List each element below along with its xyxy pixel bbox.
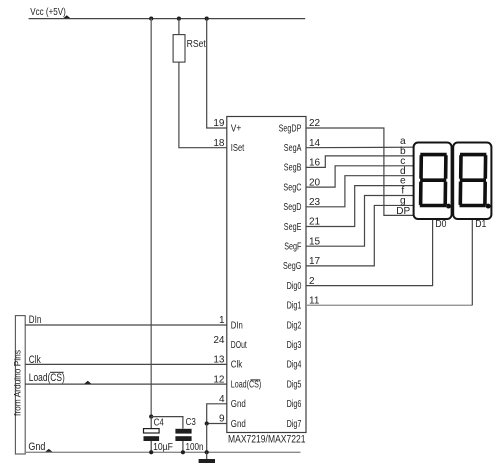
svg-text:Dig2: Dig2 xyxy=(287,320,302,331)
svg-text:Dig5: Dig5 xyxy=(287,379,302,390)
wire Gnd net (bottom rail) xyxy=(25,451,300,453)
svg-text:10µF: 10µF xyxy=(153,442,173,453)
svg-text:12: 12 xyxy=(213,374,225,385)
digit glyph of D0 xyxy=(420,155,447,206)
svg-text:RSet: RSet xyxy=(187,39,206,50)
svg-text:DIn: DIn xyxy=(29,314,42,326)
wire Gnd pin 9 to ground column xyxy=(207,423,227,425)
svg-text:Load(CS): Load(CS) xyxy=(231,379,261,390)
svg-text:ISet: ISet xyxy=(231,143,245,154)
junction on Vcc rail at decoupling branch xyxy=(149,17,153,21)
wire Seg pin 16 to b row xyxy=(306,156,414,168)
7-segment display D0 body xyxy=(414,143,452,220)
svg-text:SegB: SegB xyxy=(284,163,302,174)
wire SegA pin 14 to a row xyxy=(306,146,414,149)
junction at capacitor C4 top xyxy=(149,415,153,419)
svg-text:SegE: SegE xyxy=(284,222,302,233)
wire Clk net xyxy=(25,363,227,365)
svg-text:Vcc (+5V): Vcc (+5V) xyxy=(30,7,66,18)
wire Seg pin 20 to c row xyxy=(306,166,414,187)
svg-text:DIn: DIn xyxy=(231,320,243,331)
svg-text:DP: DP xyxy=(396,206,410,217)
svg-text:SegD: SegD xyxy=(283,202,301,213)
decimal point of D1 xyxy=(486,204,491,209)
svg-text:9: 9 xyxy=(219,414,225,425)
capacitor C3 bottom plate xyxy=(175,436,191,441)
svg-text:18: 18 xyxy=(213,138,225,149)
wire Vcc to RSet top xyxy=(178,19,180,35)
svg-text:19: 19 xyxy=(213,118,225,129)
wire Seg pin 17 to g row xyxy=(306,205,414,265)
svg-text:V+: V+ xyxy=(231,123,242,134)
capacitor C4 top plate xyxy=(144,429,160,433)
junction at ground rail xyxy=(205,450,209,454)
7-segment display D1 body xyxy=(453,143,491,220)
wire C3 bottom to ground rail xyxy=(182,441,184,452)
svg-text:Dig7: Dig7 xyxy=(287,419,302,430)
wire Dig1 vertical to display D1 xyxy=(471,219,473,305)
wire Dig0 pin 2 to display D0 xyxy=(306,219,433,286)
svg-text:Gnd: Gnd xyxy=(231,419,246,430)
wire Seg pin 15 to f row xyxy=(306,196,414,247)
ground symbol xyxy=(199,452,215,463)
connector box from Arduino Pins xyxy=(15,316,25,454)
junction C4 at ground rail xyxy=(149,450,153,454)
svg-text:D1: D1 xyxy=(475,219,486,230)
overline over CS of Load label xyxy=(50,371,64,373)
wire RSet bottom to ISet pin 18 xyxy=(179,62,227,148)
svg-text:Gnd: Gnd xyxy=(28,441,45,453)
wire Vcc down to capacitors xyxy=(150,19,152,417)
IC U1 MAX7219/MAX7221 body xyxy=(227,117,306,433)
resistor RSet xyxy=(173,35,185,63)
svg-text:SegA: SegA xyxy=(284,143,302,154)
svg-text:MAX7219/MAX7221: MAX7219/MAX7221 xyxy=(228,434,306,446)
svg-text:C3: C3 xyxy=(186,417,196,428)
svg-text:13: 13 xyxy=(213,355,225,366)
junction C3 at ground rail xyxy=(181,450,185,454)
wire Vcc to V+ pin 19 xyxy=(207,19,227,128)
wire Load(CS) net xyxy=(25,383,227,385)
svg-text:Dig3: Dig3 xyxy=(287,340,302,351)
svg-text:DOut: DOut xyxy=(231,340,247,351)
svg-text:g: g xyxy=(400,196,406,207)
svg-text:Clk: Clk xyxy=(29,354,42,366)
svg-text:Dig6: Dig6 xyxy=(287,399,302,410)
wire Seg pin 21 to e row xyxy=(306,186,414,227)
svg-text:24: 24 xyxy=(213,335,225,346)
svg-text:C4: C4 xyxy=(154,417,164,428)
wire Gnd pin 4 to ground column xyxy=(207,404,227,424)
junction on Vcc rail at V+ branch xyxy=(205,17,209,21)
svg-text:Gnd: Gnd xyxy=(231,399,246,410)
junction on Vcc rail at RSet branch xyxy=(177,17,181,21)
svg-text:D0: D0 xyxy=(435,219,446,230)
svg-text:SegC: SegC xyxy=(283,182,301,193)
svg-text:Clk: Clk xyxy=(231,360,243,371)
svg-text:Dig4: Dig4 xyxy=(287,360,302,371)
marker on Load net xyxy=(84,381,91,384)
wire Dig1 pin 11 horizontal xyxy=(306,304,472,306)
svg-text:from Arduino Pins: from Arduino Pins xyxy=(13,349,23,416)
junction at Gnd pin 9 xyxy=(205,421,209,425)
svg-text:Dig0: Dig0 xyxy=(287,281,302,292)
overline over CS of internal Load label xyxy=(250,379,260,381)
svg-text:1: 1 xyxy=(219,315,225,326)
wire Seg pin 23 to d row xyxy=(306,176,414,207)
digit glyph of D1 xyxy=(460,155,487,206)
capacitor C4 bottom plate xyxy=(144,436,160,441)
svg-text:Load(CS): Load(CS) xyxy=(29,372,65,384)
svg-text:Dig1: Dig1 xyxy=(287,301,302,312)
svg-text:4: 4 xyxy=(219,394,225,405)
svg-text:SegDP: SegDP xyxy=(279,123,302,134)
wire junction to C3 top xyxy=(151,417,183,429)
wire junction to C4 top xyxy=(150,417,152,429)
marker on Gnd net xyxy=(45,449,52,452)
wire DIn net xyxy=(25,324,227,326)
svg-text:SegF: SegF xyxy=(284,242,301,253)
decimal point of D0 xyxy=(446,204,451,209)
svg-text:SegG: SegG xyxy=(283,261,302,272)
wire Vcc rail xyxy=(29,18,306,20)
svg-text:100n: 100n xyxy=(186,442,204,453)
power marker on Vcc rail xyxy=(63,15,70,18)
wire SegDP pin 22 to DP row xyxy=(306,128,414,215)
capacitor C3 top plate xyxy=(175,429,191,434)
wire ground column down to ground rail xyxy=(206,424,208,453)
wire C4 bottom to ground rail xyxy=(150,441,152,452)
